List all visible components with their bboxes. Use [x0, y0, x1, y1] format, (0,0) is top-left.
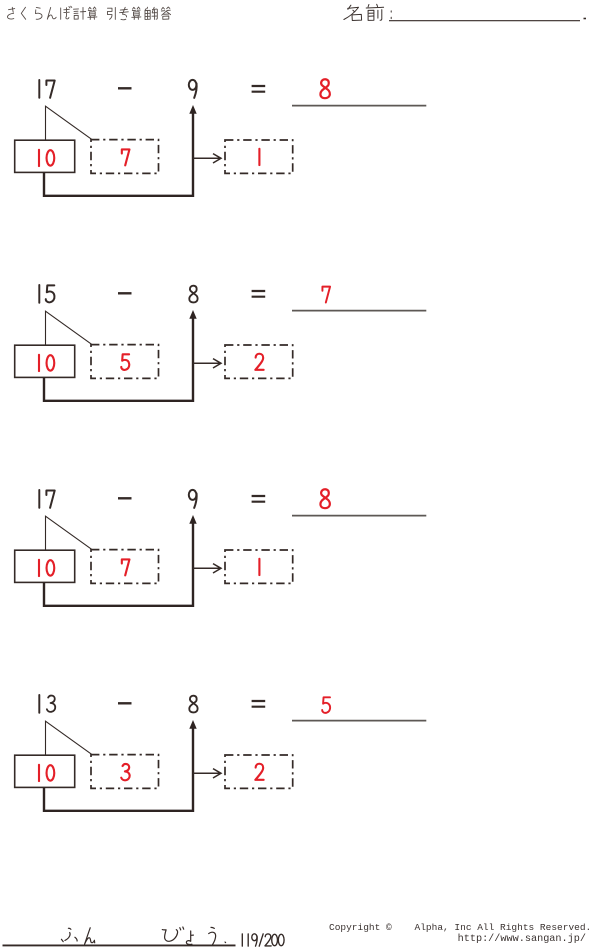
problem 4: part box value 3 (red)	[121, 764, 129, 780]
footer ふん (drawn glyphs)	[61, 928, 94, 944]
problem 3: minuend 17	[39, 490, 54, 508]
problem 3: ten box value 10 (red)	[39, 560, 54, 576]
problem 1: ten box value 10 (red)	[39, 150, 54, 166]
problem 3: answer underline	[292, 515, 426, 517]
copyright line 2 (url)	[458, 933, 586, 945]
page number 119/200	[242, 934, 284, 946]
problem 3: equals sign	[252, 496, 266, 502]
problem 2: ten box value 10 (red)	[39, 355, 54, 371]
footer びょう. (drawn glyphs)	[162, 927, 225, 945]
problem 2: answer 7 (red)	[322, 287, 330, 303]
problem 2: part box (dash-dot)	[91, 345, 159, 379]
problem 2: arrow to result box	[193, 359, 221, 368]
problem 2: answer underline	[292, 310, 426, 312]
problem 1: subtrahend 9	[189, 80, 197, 98]
problem 4: minus sign	[118, 702, 132, 704]
problem 1: part box value 7 (red)	[122, 149, 130, 165]
problem 4: part box (dash-dot)	[91, 755, 159, 789]
problem 1: equals sign	[252, 86, 266, 92]
problem 2: equals sign	[252, 291, 266, 297]
problem 1: arrow to result box	[193, 154, 221, 163]
problem 3: answer 8 (red)	[320, 489, 329, 508]
problem 2: wire connector from ten box to subtrahend	[44, 318, 193, 401]
problem 3: subtrahend 9	[189, 490, 197, 508]
problem 4: cherry stem lines	[46, 721, 93, 755]
svg-text:Copyright © Alpha, Inc All: Copyright © Alpha, Inc All Rights Reserv…	[329, 922, 591, 933]
problem 3: cherry stem lines	[46, 516, 93, 550]
problem 2: cherry stem lines	[46, 311, 93, 345]
problem 3: part box value 7 (red)	[122, 559, 130, 575]
problem 1: wire connector from ten box to subtrahend	[44, 113, 193, 196]
problem 1: cherry stem lines	[46, 106, 93, 140]
problem 2: minuend 15	[39, 285, 54, 303]
problem 2: minus sign	[118, 292, 132, 294]
problem 4: equals sign	[252, 701, 266, 707]
problem 1: answer underline	[292, 105, 426, 107]
name label 名前: (drawn glyphs)	[344, 4, 391, 20]
problem 1: minus sign	[118, 87, 132, 89]
problem 4: wire connector from ten box to subtrahend	[44, 728, 193, 811]
problem 1: ten box (solid)	[15, 140, 75, 172]
problem 3: arrow to result box	[193, 564, 221, 573]
problem 3: ten box (solid)	[15, 550, 75, 582]
problem 1: answer 8 (red)	[320, 79, 329, 98]
problem 4: ten box value 10 (red)	[39, 765, 54, 781]
problem 2: subtrahend 8	[189, 286, 197, 303]
problem 3: minus sign	[118, 497, 132, 499]
problem 2: arrowhead up	[189, 310, 196, 319]
problem 4: arrowhead up	[189, 720, 196, 729]
problem 1: result value 1 (red)	[258, 149, 260, 165]
problem 2: part box value 5 (red)	[121, 354, 129, 370]
problem 4: arrow to result box	[193, 769, 221, 778]
problem 1: result box (dash-dot)	[225, 140, 293, 173]
problem 3: wire connector from ten box to subtrahend	[44, 523, 193, 606]
problem 2: ten box (solid)	[15, 345, 75, 377]
problem 1: part box (dash-dot)	[91, 140, 159, 174]
footer time underline	[3, 944, 236, 946]
problem 4: subtrahend 8	[189, 696, 197, 713]
svg-text:http://www.sangan.jp/: http://www.sangan.jp/	[458, 933, 586, 945]
title さくらんぼ計算 引き算解答 (drawn glyphs)	[7, 6, 170, 20]
problem 4: result value 2 (red)	[255, 764, 263, 780]
problem 1: minuend 17	[39, 80, 54, 98]
problem 4: minuend 13	[39, 695, 55, 713]
problem 3: part box (dash-dot)	[91, 550, 159, 584]
problem 3: arrowhead up	[189, 515, 196, 524]
problem 4: result box (dash-dot)	[225, 755, 293, 788]
name line period	[584, 18, 587, 20]
name underline	[389, 20, 580, 22]
problem 2: result value 2 (red)	[255, 354, 263, 370]
copyright line 1	[329, 922, 591, 933]
problem 2: result box (dash-dot)	[225, 345, 293, 378]
problem 3: result box (dash-dot)	[225, 550, 293, 583]
problem 3: result value 1 (red)	[258, 559, 260, 575]
problem 4: ten box (solid)	[15, 755, 75, 787]
problem 4: answer 5 (red)	[322, 697, 330, 713]
problem 4: answer underline	[292, 720, 426, 722]
problem 1: arrowhead up	[189, 105, 196, 114]
